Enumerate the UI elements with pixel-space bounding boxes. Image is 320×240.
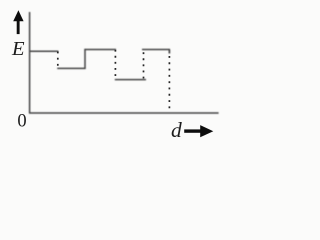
step segment 1 (solid, level E1): [29, 50, 58, 52]
svg-text:E: E: [11, 38, 25, 60]
E-axis direction arrow (bold up arrow): [13, 10, 23, 34]
y-axis (vertical E axis line): [29, 12, 31, 113]
step segment 2 (solid, level E2): [57, 67, 85, 69]
corner elbow at final drop: [168, 50, 170, 54]
svg-text:0: 0: [17, 112, 26, 132]
dotted drop 3 (to d axis): [168, 56, 170, 112]
dotted drop 2: [114, 50, 116, 80]
dotted drop 1: [57, 52, 59, 69]
svg-text:d: d: [171, 118, 182, 142]
step segment 4 (solid, level E4): [115, 79, 146, 81]
solid rise 1: [84, 49, 86, 69]
dotted rise 2: [143, 51, 145, 79]
step segment 5 (solid, level E5): [142, 49, 170, 51]
x-axis (horizontal d axis line): [29, 112, 219, 114]
step segment 3 (solid, level E3): [84, 49, 116, 51]
d-axis direction arrow (bold right arrow): [184, 125, 213, 137]
